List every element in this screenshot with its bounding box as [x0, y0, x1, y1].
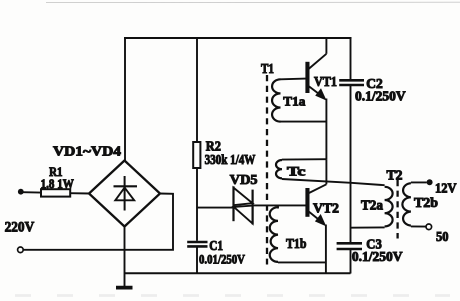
svg-text:1.8 1W: 1.8 1W — [41, 176, 74, 191]
svg-text:T1b: T1b — [286, 237, 307, 252]
svg-text:0.1/250V: 0.1/250V — [355, 88, 406, 103]
svg-text:VD1~VD4: VD1~VD4 — [53, 145, 121, 160]
svg-text:T1: T1 — [261, 61, 274, 76]
svg-text:0.01/250V: 0.01/250V — [199, 252, 246, 267]
svg-text:50: 50 — [436, 229, 449, 244]
svg-text:VT1: VT1 — [314, 74, 337, 89]
svg-text:T1a: T1a — [283, 93, 306, 108]
svg-text:T2a: T2a — [361, 198, 383, 213]
svg-text:0.1/250V: 0.1/250V — [352, 249, 403, 264]
svg-text:12V: 12V — [435, 181, 457, 196]
svg-text:330k 1/4W: 330k 1/4W — [205, 152, 256, 167]
svg-text:VD5: VD5 — [230, 172, 258, 187]
svg-text:T2: T2 — [387, 168, 403, 183]
svg-text:T2b: T2b — [414, 195, 438, 210]
svg-text:Tc: Tc — [287, 163, 306, 178]
svg-text:220V: 220V — [5, 219, 35, 235]
svg-text:VT2: VT2 — [313, 202, 339, 217]
